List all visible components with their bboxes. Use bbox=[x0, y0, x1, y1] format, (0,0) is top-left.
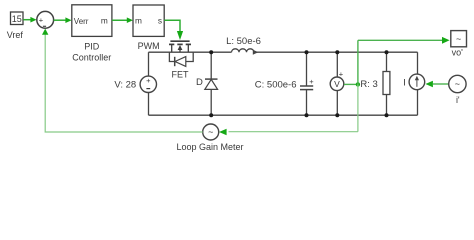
wire i' port to current meter bbox=[425, 81, 448, 88]
svg-text:m: m bbox=[135, 16, 142, 26]
svg-text:PWM: PWM bbox=[138, 41, 160, 51]
resistor R: 3 bbox=[360, 52, 390, 115]
loop gain meter bbox=[176, 124, 243, 152]
svg-text:L: 50e-6: L: 50e-6 bbox=[226, 36, 261, 47]
wire feedback left segment bbox=[42, 29, 203, 132]
svg-text:FET: FET bbox=[172, 70, 190, 80]
voltmeter V bbox=[330, 52, 344, 115]
node vmeter top bbox=[335, 50, 339, 54]
svg-text:Vref: Vref bbox=[7, 30, 24, 40]
node cap top bbox=[305, 50, 309, 54]
svg-text:I: I bbox=[403, 78, 406, 89]
svg-text:Controller: Controller bbox=[72, 53, 111, 63]
node vmeter bottom bbox=[335, 113, 339, 117]
capacitor C: 500e-6 bbox=[255, 52, 315, 115]
voltage source V: 28 bbox=[114, 52, 156, 115]
svg-text:m: m bbox=[101, 16, 108, 26]
port vo' bbox=[451, 31, 467, 58]
svg-text:+: + bbox=[39, 16, 44, 25]
wire PWM to FET gate bbox=[164, 20, 183, 40]
node switch bottom bbox=[209, 113, 213, 117]
wire Vref to sum bbox=[23, 17, 36, 23]
wire top rail left segment bbox=[149, 51, 232, 53]
svg-text:~: ~ bbox=[456, 34, 461, 44]
wire voltmeter output bbox=[344, 40, 360, 131]
svg-text:+: + bbox=[339, 69, 344, 78]
current meter I bbox=[403, 52, 425, 115]
inductor L: 50e-6 bbox=[226, 36, 261, 55]
node resistor bottom bbox=[385, 113, 389, 117]
constant block Vref value 15 bbox=[7, 12, 24, 40]
svg-text:R: 3: R: 3 bbox=[360, 79, 377, 90]
svg-text:PID: PID bbox=[84, 42, 100, 52]
svg-text:15: 15 bbox=[12, 14, 22, 24]
svg-text:vo': vo' bbox=[452, 47, 464, 57]
wire top rail right segment bbox=[256, 51, 418, 53]
wire sum to PID bbox=[54, 17, 72, 23]
diode D bbox=[196, 52, 218, 115]
svg-text:~: ~ bbox=[455, 79, 460, 89]
node switch top bbox=[209, 50, 213, 54]
port i' bbox=[449, 75, 466, 105]
svg-text:V: 28: V: 28 bbox=[114, 80, 136, 91]
svg-text:Verr: Verr bbox=[74, 17, 89, 26]
wire PID to PWM bbox=[112, 17, 133, 23]
svg-text:+: + bbox=[309, 77, 314, 86]
svg-text:~: ~ bbox=[208, 127, 213, 137]
transistor FET (MOSFET with body diode) bbox=[169, 41, 193, 79]
PID controller block U-PID bbox=[72, 5, 112, 63]
wire feedback right segment bbox=[219, 129, 358, 136]
wire bottom rail bbox=[149, 114, 418, 116]
svg-text:+: + bbox=[146, 76, 151, 85]
node resistor top bbox=[385, 50, 389, 54]
sum junction bbox=[37, 11, 54, 28]
svg-text:Loop Gain Meter: Loop Gain Meter bbox=[176, 142, 243, 152]
svg-text:i': i' bbox=[456, 95, 460, 105]
PWM block bbox=[133, 5, 164, 51]
svg-text:C: 500e-6: C: 500e-6 bbox=[255, 80, 297, 91]
wire to vo port bbox=[358, 37, 450, 44]
svg-text:s: s bbox=[158, 16, 162, 26]
svg-text:D: D bbox=[196, 77, 203, 88]
svg-text:V: V bbox=[334, 79, 340, 89]
node cap bottom bbox=[305, 113, 309, 117]
